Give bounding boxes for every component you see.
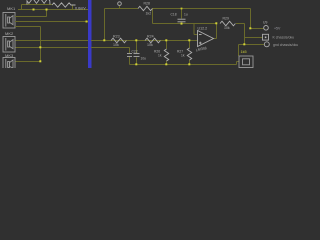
svg-text:MK2: MK2	[5, 31, 14, 36]
svg-text:10k: 10k	[113, 43, 119, 47]
svg-text:C18: C18	[171, 13, 177, 17]
svg-text:1k: 1k	[181, 54, 185, 58]
svg-text:U9: U9	[263, 21, 267, 25]
svg-text:K chassis/oku: K chassis/oku	[273, 36, 295, 40]
microphone MK1	[3, 13, 15, 29]
terminal gnd circle	[264, 42, 269, 47]
wire mic3 pin1 y61	[15, 61, 41, 63]
node dot (244,44)	[243, 43, 245, 45]
terminal K square	[263, 34, 269, 40]
wire mic1 pin2 y21	[15, 21, 88, 23]
blue splitter bar	[88, 0, 92, 68]
wire end marker (87,21)	[86, 21, 88, 23]
node dot (166,40)	[165, 39, 167, 41]
svg-text:1k5: 1k5	[241, 50, 247, 54]
buzzer box	[239, 56, 253, 68]
wire opamp output	[213, 38, 217, 40]
resistor R28	[138, 6, 152, 10]
resistor R23	[111, 38, 126, 43]
resistor R26 (vertical x166)	[164, 49, 168, 61]
svg-text:R24: R24	[147, 34, 154, 38]
svg-text:10u: 10u	[141, 57, 147, 61]
resistor R25 (vertical x189)	[187, 48, 191, 60]
svg-text:R29: R29	[223, 16, 229, 20]
svg-text:+5V: +5V	[274, 27, 281, 31]
wire mic2 pin2 y47	[15, 47, 88, 49]
svg-text:1k2: 1k2	[146, 11, 152, 15]
node dot A (33,10)	[33, 9, 35, 11]
wire mic1 pin1 y16	[15, 16, 47, 18]
svg-text:10k: 10k	[147, 43, 153, 47]
wire mic1 pin3 y26 to bus	[15, 26, 41, 28]
resistor R20 (top, clipped by viewport)	[27, 0, 50, 5]
svg-text:C22: C22	[132, 49, 138, 53]
svg-text:1u: 1u	[184, 13, 188, 17]
capacitor C22 plates	[134, 54, 140, 57]
node dot (181,8.5)	[181, 8, 183, 10]
capacitor C21 plates	[127, 54, 132, 57]
node dot (189,64)	[188, 63, 190, 65]
node dot (40,47)	[39, 46, 41, 48]
node dot (189,40)	[188, 39, 190, 41]
wire R26 legs x166	[166, 41, 168, 50]
node dot (166,64)	[165, 63, 167, 65]
svg-text:R23: R23	[113, 34, 120, 38]
node dot (136,40)	[135, 39, 137, 41]
svg-text:U12.2: U12.2	[198, 26, 208, 30]
svg-text:gnd chassis/oku: gnd chassis/oku	[273, 43, 298, 47]
microphone MK3	[3, 58, 15, 70]
svg-text:R28: R28	[144, 2, 150, 6]
wire mic1 top net y10	[15, 5, 88, 62]
wire ground rail y64	[130, 64, 237, 66]
wire R28 down leg	[152, 9, 154, 24]
wire C18 legs (vertical cap x181)	[181, 9, 183, 19]
terminal +5V circle	[264, 26, 269, 31]
microphone MK2	[3, 37, 15, 53]
svg-text:MK1: MK1	[7, 6, 16, 11]
wire +5V feed	[250, 9, 252, 29]
svg-text:10k: 10k	[224, 26, 230, 30]
resistor R24	[145, 38, 160, 43]
wire cap leg x129	[91, 47, 130, 49]
svg-text:1k: 1k	[158, 54, 162, 58]
wire cap leg x136	[136, 41, 138, 54]
op-amp U12.2	[198, 31, 214, 47]
node dot (136,64)	[135, 63, 137, 65]
node dot (181,23.5)	[181, 23, 183, 25]
wire mic2 pin1 y40 (to divider)	[15, 40, 88, 42]
wire top net y8	[105, 8, 139, 10]
svg-text:0.6mV: 0.6mV	[75, 6, 86, 10]
wire R25 legs x189	[189, 41, 191, 49]
node dot (216,23)	[215, 22, 217, 24]
wire vertical bus x40	[40, 27, 42, 62]
node dot (104,40)	[103, 39, 105, 41]
wire R29 right to terminals	[236, 23, 245, 25]
capacitor C18 (vertical, x181)	[178, 19, 186, 22]
resistor R21	[52, 3, 76, 7]
node dot B (46,10)	[46, 9, 48, 11]
terminal circle U? (119,3)	[118, 2, 122, 6]
node dot (250,28)	[249, 27, 251, 29]
node dot (40,61)	[39, 60, 41, 62]
resistor R29	[220, 21, 235, 26]
wire divider net y40	[91, 40, 198, 42]
